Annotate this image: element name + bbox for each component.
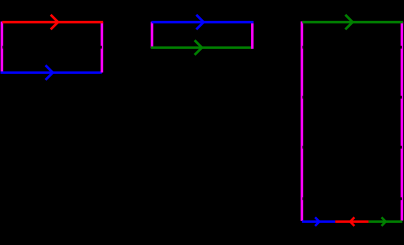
square 3 left edge (magenta) xyxy=(301,21,304,221)
square 3 bottom edge segment g (green) xyxy=(369,220,403,223)
square 3 right edge tick marks xyxy=(400,46,402,200)
square 1 top edge arrow (red, right) xyxy=(51,15,58,30)
square 2 bottom edge g (green) xyxy=(151,46,252,49)
square 1 right edge tick mark xyxy=(100,46,102,49)
square 1 bottom edge b (blue) xyxy=(1,71,102,74)
square 3 bottom blue arrow (right) xyxy=(315,217,319,226)
square 2 right edge (magenta) xyxy=(251,22,254,49)
square 3 bottom green arrow (right) xyxy=(382,217,386,226)
square 1 left edge c (magenta) xyxy=(1,22,4,73)
square 2 bottom edge arrow (green, right) xyxy=(195,40,202,55)
square 3 bottom red arrow (left) xyxy=(350,217,354,226)
square 3 right edge (magenta) xyxy=(401,22,404,221)
square 1 right edge c (magenta) xyxy=(101,22,104,72)
square 3 left edge tick marks xyxy=(302,46,304,200)
square 2 left edge (magenta) xyxy=(151,22,154,49)
square 3 top edge arrow (green, right) xyxy=(345,15,352,30)
square 3 top edge g (green) xyxy=(302,21,403,24)
square 1 top edge a (red) xyxy=(2,21,103,24)
square 3 bottom edge segment a reversed (red) xyxy=(335,220,368,223)
square 1 left edge tick mark xyxy=(2,46,4,49)
square 2 top edge b (blue) xyxy=(152,21,254,24)
square 1 bottom edge arrow (blue, right) xyxy=(46,65,53,80)
square 2 top edge arrow (blue, right) xyxy=(196,15,203,30)
square 3 bottom edge segment b (blue) xyxy=(302,220,335,223)
